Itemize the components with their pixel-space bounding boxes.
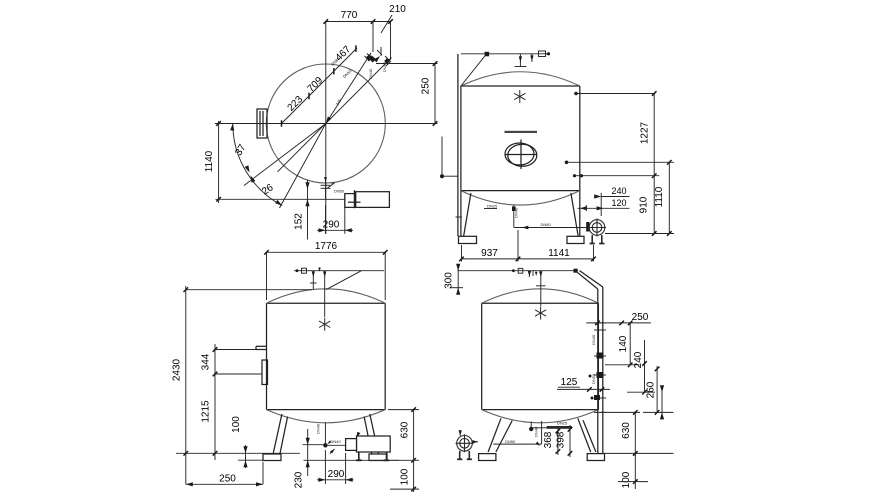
dim 345 (center to fitting)	[326, 53, 371, 124]
svg-text:DN25: DN25	[487, 204, 498, 209]
dim 630	[634, 412, 636, 456]
ext line to 250 dim	[378, 63, 438, 65]
dim 1110	[668, 162, 670, 233]
left nozzle stub	[256, 346, 267, 349]
svg-text:100: 100	[400, 468, 411, 485]
dim 290	[325, 205, 327, 234]
ground lines right	[600, 411, 640, 413]
svg-text:230: 230	[294, 471, 305, 488]
dim 630 right	[388, 409, 419, 411]
svg-text:300: 300	[443, 272, 454, 289]
svg-text:125: 125	[561, 377, 578, 388]
drain pipe	[324, 422, 326, 445]
spray ball	[514, 90, 525, 103]
svg-text:DN50: DN50	[505, 439, 516, 444]
svg-text:1141: 1141	[548, 248, 570, 259]
bottom head	[267, 410, 386, 423]
right leg	[364, 414, 387, 461]
ground line	[176, 452, 300, 454]
angle line 37	[244, 124, 326, 186]
svg-text:DN40: DN40	[514, 207, 519, 218]
left leg	[459, 191, 477, 244]
dim 1215	[213, 451, 218, 456]
svg-text:100: 100	[621, 471, 632, 488]
dim 250 (right of plan)	[434, 64, 436, 124]
side pipe	[457, 54, 459, 236]
svg-text:250: 250	[632, 312, 649, 323]
manway	[505, 140, 537, 170]
svg-text:1776: 1776	[315, 241, 338, 252]
left leg	[263, 414, 288, 461]
svg-text:1110: 1110	[654, 186, 665, 207]
svg-text:DN40: DN40	[591, 334, 596, 345]
head tangent leader	[461, 54, 487, 86]
svg-text:344: 344	[201, 353, 212, 370]
bottom dished head	[461, 191, 580, 205]
svg-text:140: 140	[618, 335, 629, 352]
svg-text:DN40: DN40	[331, 439, 342, 444]
right leg	[567, 193, 584, 244]
angle line 26	[280, 124, 326, 209]
pipe bend	[577, 272, 598, 289]
dim 140	[629, 323, 631, 365]
legs	[479, 418, 605, 460]
fitting block	[485, 52, 490, 57]
svg-text:240: 240	[611, 186, 626, 196]
svg-text:2430: 2430	[172, 358, 183, 381]
svg-text:937: 937	[481, 248, 498, 259]
wall outlet nozzle (dark)	[586, 222, 589, 232]
svg-text:630: 630	[621, 422, 632, 439]
svg-text:250: 250	[421, 77, 432, 94]
top head	[482, 289, 599, 303]
svg-text:1215: 1215	[201, 400, 212, 423]
tank shell (plan circle)	[266, 64, 385, 183]
svg-text:1140: 1140	[204, 150, 215, 172]
tank shell	[482, 303, 599, 409]
top fitting rail	[458, 270, 577, 272]
svg-text:260: 260	[646, 381, 657, 398]
svg-text:290: 290	[328, 469, 345, 480]
dim 100	[634, 453, 636, 489]
dim 1776	[267, 251, 386, 253]
top fitting rail	[461, 53, 548, 55]
spray ball	[319, 318, 330, 331]
svg-text:210: 210	[389, 4, 406, 15]
svg-text:368: 368	[543, 431, 554, 448]
side level glass	[262, 360, 268, 385]
level gauge left	[441, 137, 443, 177]
right wall nozzle C (910 level)	[573, 174, 576, 177]
pump (plan)	[345, 190, 390, 208]
svg-text:910: 910	[639, 196, 650, 213]
DN25 flanged nozzle	[547, 426, 572, 429]
dim 230	[307, 429, 309, 476]
svg-text:152: 152	[294, 213, 305, 230]
external pipe	[597, 289, 599, 454]
dim 1227	[653, 94, 655, 234]
svg-text:120: 120	[611, 198, 626, 208]
dim 100 (pad height)	[245, 445, 247, 468]
dim 250	[586, 322, 651, 324]
pump left	[456, 434, 474, 459]
tank shell	[267, 303, 386, 409]
top dished head	[461, 72, 580, 86]
horizontal centerline	[215, 123, 438, 125]
svg-text:DN50: DN50	[334, 189, 345, 194]
right wall nozzle A (1227 level)	[574, 92, 578, 96]
tank shell	[461, 86, 580, 236]
pump	[346, 436, 391, 460]
svg-text:630: 630	[400, 421, 411, 438]
dim 398	[569, 425, 571, 457]
dim 250	[186, 483, 263, 485]
svg-text:DN40: DN40	[534, 426, 539, 437]
dim 910	[652, 231, 657, 236]
dim 152	[307, 180, 309, 240]
dim 290	[324, 450, 326, 484]
nozzle axis 45deg	[278, 58, 392, 172]
dim 260	[656, 366, 658, 412]
nozzle N2	[531, 54, 533, 62]
dim 2430	[186, 289, 312, 291]
drain tap	[530, 422, 532, 430]
dim 240	[644, 340, 646, 392]
spray ball	[535, 307, 546, 320]
center top nozzle	[519, 54, 521, 66]
dim 770 / 210	[326, 21, 391, 23]
DN fitting on rail	[539, 51, 546, 57]
dim 240 / 120 leaders	[601, 196, 629, 198]
dim 937 / 1141	[462, 258, 594, 260]
sight glass	[505, 131, 538, 133]
svg-text:100: 100	[231, 416, 242, 433]
dim 344	[215, 349, 256, 351]
dim 100 right	[413, 460, 415, 492]
svg-text:290: 290	[323, 219, 340, 230]
svg-text:DN50: DN50	[591, 373, 596, 384]
pipe branch fittings	[594, 323, 606, 413]
angle arc	[233, 124, 282, 206]
dim 1140	[218, 121, 220, 203]
bottom drain line	[513, 205, 515, 228]
top fitting cluster	[365, 50, 392, 66]
svg-text:398: 398	[556, 431, 567, 448]
svg-text:240: 240	[633, 351, 644, 368]
svg-text:250: 250	[219, 473, 236, 484]
svg-text:DN25: DN25	[557, 421, 568, 426]
bottom nozzle cluster	[321, 181, 335, 200]
dim 368	[557, 427, 559, 455]
bottom head	[482, 410, 599, 423]
baseline	[216, 198, 346, 200]
svg-text:1227: 1227	[640, 121, 651, 144]
right wall nozzle B (1110 level)	[565, 161, 569, 165]
svg-text:770: 770	[341, 10, 358, 21]
vertical centerline	[325, 22, 327, 235]
drain pipe	[541, 421, 543, 444]
dim 125	[557, 388, 610, 390]
top fitting rail	[294, 270, 384, 272]
dim chain along axis	[282, 48, 358, 124]
pump	[588, 219, 606, 244]
top head	[267, 289, 386, 303]
side manway (plan)	[257, 109, 267, 138]
svg-text:DN40: DN40	[368, 68, 373, 79]
dim 300	[457, 264, 459, 295]
svg-text:DN80: DN80	[541, 222, 552, 227]
svg-text:DN40: DN40	[316, 423, 321, 434]
